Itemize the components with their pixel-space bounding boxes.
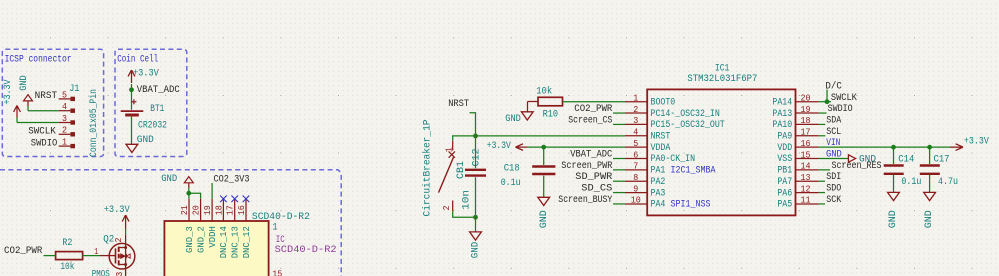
wire GND to J1 pin4 xyxy=(28,110,59,112)
svg-text:9: 9 xyxy=(633,183,638,194)
svg-text:SDI: SDI xyxy=(826,171,841,183)
svg-text:GND_2: GND_2 xyxy=(195,226,206,253)
svg-text:PA7: PA7 xyxy=(777,176,792,187)
svg-text:6: 6 xyxy=(633,149,638,160)
svg-text:17: 17 xyxy=(801,127,811,138)
svg-text:SD_CS: SD_CS xyxy=(581,183,612,195)
IC1 pin 14 PB1 xyxy=(796,169,819,171)
svg-text:PA5: PA5 xyxy=(777,199,792,210)
svg-text:20: 20 xyxy=(801,93,811,104)
svg-text:Screen_BUSY: Screen_BUSY xyxy=(558,194,613,206)
svg-text:Screen_PWR: Screen_PWR xyxy=(561,160,613,172)
svg-text:18: 18 xyxy=(213,205,224,215)
circuit breaker CB1 xyxy=(452,141,454,151)
svg-text:2: 2 xyxy=(113,238,124,243)
J1 pin 1 xyxy=(59,145,71,147)
junction D/C xyxy=(825,99,830,104)
svg-text:DNC_14: DNC_14 xyxy=(218,226,229,258)
wire +3.3V to J1 pin3 xyxy=(17,122,59,124)
label SD_PWR xyxy=(613,180,625,182)
R10 left to GND xyxy=(528,101,539,103)
wire BT1 to GND xyxy=(131,115,133,144)
svg-text:J1: J1 xyxy=(69,83,79,95)
svg-text:1: 1 xyxy=(633,93,638,104)
svg-text:STM32L031F6P7: STM32L031F6P7 xyxy=(687,73,757,85)
svg-text:4: 4 xyxy=(633,127,638,138)
svg-text:R2: R2 xyxy=(62,237,72,249)
svg-text:NRST: NRST xyxy=(448,98,469,110)
svg-text:8: 8 xyxy=(633,172,638,183)
svg-text:+3.3V: +3.3V xyxy=(133,68,160,80)
label SCL xyxy=(819,135,826,137)
svg-text:BOOT0: BOOT0 xyxy=(651,96,676,107)
svg-text:PB1: PB1 xyxy=(777,165,792,176)
IC1 pin 17 PA9 xyxy=(796,135,819,137)
svg-text:10: 10 xyxy=(631,195,641,206)
svg-text:5: 5 xyxy=(633,138,638,149)
junction VBAT_ADC xyxy=(129,87,134,92)
svg-text:4.7u: 4.7u xyxy=(938,176,958,188)
junction GND net SCD40 xyxy=(186,191,191,196)
IC1 pin 16 VDD xyxy=(796,146,819,148)
power GND (pin15) sideways xyxy=(848,155,855,162)
label SDI xyxy=(819,180,825,182)
svg-text:ICSP connector: ICSP connector xyxy=(5,55,72,66)
no-connect X xyxy=(243,196,250,203)
svg-text:VBAT_ADC: VBAT_ADC xyxy=(570,149,612,161)
svg-text:PA13: PA13 xyxy=(772,108,792,119)
svg-text:5: 5 xyxy=(62,89,67,100)
J1 pin 3 xyxy=(59,122,71,124)
SCD40 pin 19 VDDH xyxy=(211,199,213,221)
junction NRST/C12 xyxy=(473,134,478,139)
svg-text:C14: C14 xyxy=(898,154,914,166)
svg-text:17: 17 xyxy=(225,205,236,215)
svg-text:SWDIO: SWDIO xyxy=(828,103,853,115)
label VBAT_ADC xyxy=(613,158,625,160)
svg-text:C18: C18 xyxy=(504,163,520,175)
svg-text:BT1: BT1 xyxy=(150,103,164,115)
SCD40 pin 18 DNC_14 xyxy=(222,199,224,221)
J1 pin 4 xyxy=(59,110,71,112)
IC1 pin 1 BOOT0 xyxy=(625,101,647,103)
svg-text:19: 19 xyxy=(801,104,811,115)
IC1 pin 11 PA5 xyxy=(796,203,819,205)
svg-text:7: 7 xyxy=(633,161,638,172)
IC SCD40-D-R2 body xyxy=(164,221,268,276)
no-connect X xyxy=(231,196,238,203)
IC1 pin 7 PA1 xyxy=(625,169,647,171)
svg-text:CO2_3V3: CO2_3V3 xyxy=(214,174,250,186)
svg-text:C17: C17 xyxy=(934,154,950,166)
svg-text:+3.3V: +3.3V xyxy=(104,204,131,216)
svg-text:SCD40-D-R2: SCD40-D-R2 xyxy=(275,244,337,256)
wire R10 to IC1 pin1 BOOT0 xyxy=(563,101,626,103)
svg-text:PA3: PA3 xyxy=(651,187,666,198)
junction C14 xyxy=(891,145,896,150)
wire CO2_PWR to R2 xyxy=(44,255,56,257)
SCD40 pin 16 DNC_12 xyxy=(245,199,247,221)
power GND (C17) xyxy=(924,192,936,200)
svg-text:SDA: SDA xyxy=(826,114,842,126)
group box CO2 sensor xyxy=(0,170,341,276)
svg-text:Screen_CS: Screen_CS xyxy=(568,114,612,126)
junction C17 xyxy=(927,145,932,150)
label Screen_PWR xyxy=(613,169,625,171)
svg-text:21: 21 xyxy=(179,205,190,215)
IC1 pin 20 PA14 xyxy=(796,101,819,103)
svg-text:14: 14 xyxy=(801,161,811,172)
svg-text:GND: GND xyxy=(18,75,30,91)
svg-text:CR2032: CR2032 xyxy=(138,119,167,131)
svg-text:0.1u: 0.1u xyxy=(501,177,521,189)
svg-text:R10: R10 xyxy=(543,108,559,120)
wire CO2_3V3 to pin 19 xyxy=(211,183,213,199)
svg-text:PA4: PA4 xyxy=(651,199,666,210)
svg-text:13: 13 xyxy=(801,172,811,183)
svg-text:CO2_PWR: CO2_PWR xyxy=(574,103,613,115)
svg-text:SCK: SCK xyxy=(826,194,842,206)
svg-text:PMOS: PMOS xyxy=(92,268,110,276)
wire R2 to Q2 gate xyxy=(83,255,100,257)
label Screen_CS xyxy=(613,123,625,125)
svg-text:SPI1_NSS: SPI1_NSS xyxy=(671,199,711,210)
wire GND to SCD40 pins 21/20 xyxy=(188,193,190,199)
svg-text:10n: 10n xyxy=(460,190,472,210)
wire +3.3V to Q2 xyxy=(125,229,127,236)
IC1 pin 8 PA2 xyxy=(625,180,647,182)
svg-text:1: 1 xyxy=(273,222,278,234)
svg-text:Conn_01x05_Pin: Conn_01x05_Pin xyxy=(88,89,100,157)
no-connect X xyxy=(220,196,227,203)
svg-text:VDDA: VDDA xyxy=(651,142,671,153)
svg-text:+3.3V: +3.3V xyxy=(2,79,14,105)
svg-text:15: 15 xyxy=(272,269,282,276)
junction C18 xyxy=(541,145,546,150)
power GND (CB1/C12) xyxy=(470,232,482,240)
svg-text:SD_PWR: SD_PWR xyxy=(575,171,613,183)
svg-text:CircuitBreaker_1P: CircuitBreaker_1P xyxy=(421,119,432,216)
group box Coin Cell xyxy=(115,49,187,156)
svg-text:Screen_RES: Screen_RES xyxy=(832,160,882,172)
svg-text:VDDH: VDDH xyxy=(207,226,218,247)
svg-text:20: 20 xyxy=(191,205,202,215)
svg-text:GND: GND xyxy=(161,173,177,185)
svg-text:D/C: D/C xyxy=(825,80,842,92)
IC1 pin 4 NRST xyxy=(625,135,647,137)
label Screen_BUSY xyxy=(613,203,625,205)
wire C12 bottom xyxy=(475,177,477,217)
IC1 pin 18 PA10 xyxy=(796,123,819,125)
IC1 pin 5 VDDA xyxy=(625,146,647,148)
IC1 pin 10 PA4 xyxy=(625,203,647,205)
svg-text:3: 3 xyxy=(633,115,638,126)
svg-text:Coin Cell: Coin Cell xyxy=(117,54,158,66)
svg-text:PA9: PA9 xyxy=(777,130,792,141)
svg-text:3: 3 xyxy=(114,272,125,276)
IC1 pin 9 PA3 xyxy=(625,192,647,194)
group box ICSP connector xyxy=(2,49,103,156)
svg-text:PA14: PA14 xyxy=(772,96,792,107)
SCD40 pin 20 GND_2 xyxy=(200,199,202,221)
wire CB1 to GND junction xyxy=(453,211,476,217)
svg-text:3: 3 xyxy=(62,113,67,124)
svg-text:I2C1_SMBA: I2C1_SMBA xyxy=(671,165,716,176)
svg-text:PA1: PA1 xyxy=(651,165,666,176)
svg-text:15: 15 xyxy=(801,149,811,160)
svg-text:GND: GND xyxy=(505,113,521,125)
J1 pin 2 xyxy=(59,133,71,135)
svg-text:18: 18 xyxy=(801,115,811,126)
svg-text:GND: GND xyxy=(538,210,550,228)
svg-text:VDD: VDD xyxy=(777,142,792,153)
svg-text:12: 12 xyxy=(801,183,811,194)
svg-text:4: 4 xyxy=(62,101,67,112)
svg-text:SWCLK: SWCLK xyxy=(28,126,56,138)
svg-text:16: 16 xyxy=(236,205,247,215)
svg-text:VSS: VSS xyxy=(777,153,792,164)
svg-text:2: 2 xyxy=(62,125,67,136)
wire to GND (CB1) xyxy=(475,217,477,232)
power GND (C18) xyxy=(538,197,550,205)
svg-text:10k: 10k xyxy=(60,261,74,273)
svg-text:GND_3: GND_3 xyxy=(184,226,195,253)
svg-text:+3.3V: +3.3V xyxy=(964,136,990,148)
IC1 body xyxy=(647,89,795,215)
svg-text:GND: GND xyxy=(137,134,154,146)
svg-text:SCL: SCL xyxy=(826,126,841,138)
SCD40 pin 17 DNC_13 xyxy=(234,199,236,221)
svg-text:10k: 10k xyxy=(536,86,552,98)
IC1 pin 19 PA13 xyxy=(796,112,819,114)
svg-text:GND: GND xyxy=(887,210,899,228)
svg-text:GND: GND xyxy=(923,210,935,228)
SCD40 pin 21 GND_3 xyxy=(188,199,190,221)
svg-text:19: 19 xyxy=(202,205,213,215)
IC1 pin 3 PC15-_OSC32_OUT xyxy=(625,123,647,125)
IC1 pin 13 PA7 xyxy=(796,180,819,182)
wire VIN rail +3.3V xyxy=(819,146,951,148)
label SWDIO xyxy=(819,112,827,114)
svg-text:16: 16 xyxy=(801,138,811,149)
svg-text:PA10: PA10 xyxy=(772,119,792,130)
svg-text:11: 11 xyxy=(801,195,811,206)
svg-text:0.1u: 0.1u xyxy=(901,176,921,188)
label SDO xyxy=(819,192,825,194)
wire +3.3V to IC1 pin5 VDDA xyxy=(527,146,625,148)
svg-text:C12: C12 xyxy=(471,149,483,167)
power +3.3V (right) xyxy=(956,144,963,147)
svg-text:SCD40-D-R2: SCD40-D-R2 xyxy=(252,211,310,223)
IC1 pin 12 PA6 xyxy=(796,192,819,194)
svg-text:+3.3V: +3.3V xyxy=(487,140,512,152)
svg-text:1: 1 xyxy=(94,246,98,257)
svg-text:PA2: PA2 xyxy=(651,176,666,187)
svg-text:GND: GND xyxy=(470,242,482,259)
IC1 pin 6 PA0-CK_IN xyxy=(625,158,647,160)
junction C12/CB1 GND xyxy=(473,215,478,220)
svg-text:CO2_PWR: CO2_PWR xyxy=(4,245,43,257)
label SDA xyxy=(819,123,826,125)
svg-text:PA6: PA6 xyxy=(777,187,792,198)
svg-text:PA0-CK_IN: PA0-CK_IN xyxy=(651,153,696,164)
wire D/C to pin20 xyxy=(826,90,828,102)
power GND (C14) xyxy=(888,192,900,200)
battery BT1 CR2032 xyxy=(131,101,136,103)
wire pin15 to GND symbol xyxy=(819,158,849,160)
J1 pin 5 xyxy=(59,98,71,100)
wire C12 top xyxy=(475,136,477,168)
IC1 pin 2 PC14-_OSC32_IN xyxy=(625,112,647,114)
svg-text:PC14-_OSC32_IN: PC14-_OSC32_IN xyxy=(651,108,720,119)
label SD_CS xyxy=(613,192,625,194)
svg-text:VBAT_ADC: VBAT_ADC xyxy=(137,84,180,96)
svg-text:PC15-_OSC32_OUT: PC15-_OSC32_OUT xyxy=(651,119,725,130)
svg-text:NRST: NRST xyxy=(35,90,58,102)
svg-text:2: 2 xyxy=(441,206,452,211)
svg-text:DNC_12: DNC_12 xyxy=(241,226,252,258)
label CO2_PWR xyxy=(613,112,625,114)
wire NRST row to IC1 pin 4 xyxy=(453,136,625,141)
label SCK xyxy=(819,203,825,205)
svg-text:1: 1 xyxy=(62,137,67,148)
wire +3.3V to BT1 xyxy=(131,84,133,110)
svg-text:2: 2 xyxy=(633,104,638,115)
IC1 pin 15 VSS xyxy=(796,158,819,160)
svg-text:SDO: SDO xyxy=(826,183,841,195)
svg-text:SWDIO: SWDIO xyxy=(31,137,58,149)
svg-text:NRST: NRST xyxy=(651,130,671,141)
svg-text:DNC_13: DNC_13 xyxy=(230,226,241,258)
wire NRST down xyxy=(470,113,476,136)
